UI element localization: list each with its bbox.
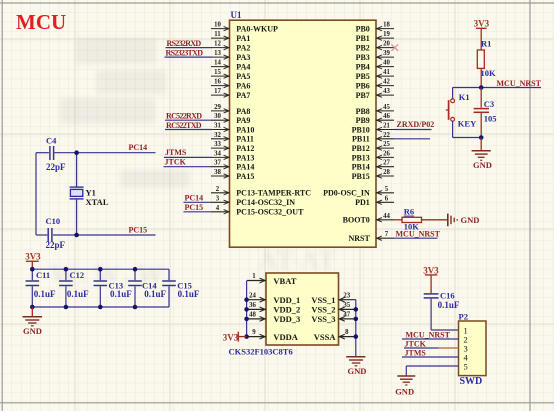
switch K1 bbox=[446, 99, 455, 121]
wire net MCU_NRST (P2 pin 2) bbox=[402, 338, 459, 340]
svg-text:GND: GND bbox=[473, 160, 492, 170]
wire net RC522TXD bbox=[165, 129, 212, 131]
svg-text:PA3: PA3 bbox=[236, 53, 250, 62]
svg-text:R1: R1 bbox=[481, 39, 491, 49]
svg-text:PA10: PA10 bbox=[236, 125, 254, 134]
svg-text:8: 8 bbox=[345, 329, 349, 336]
capacitor C15 bbox=[162, 269, 176, 307]
svg-text:19: 19 bbox=[383, 31, 390, 38]
svg-text:JTCK: JTCK bbox=[405, 339, 427, 348]
svg-text:38: 38 bbox=[214, 169, 221, 176]
capacitor C11 bbox=[26, 269, 40, 307]
svg-text:23: 23 bbox=[343, 292, 350, 299]
svg-text:PD1: PD1 bbox=[355, 198, 370, 207]
svg-text:PC14: PC14 bbox=[129, 143, 148, 152]
U1 pin 48 (VDD_3) bbox=[247, 312, 300, 325]
U1 pin 8 (VSSA) bbox=[314, 329, 356, 342]
junctions VSS bus bbox=[354, 307, 359, 339]
svg-text:26: 26 bbox=[383, 150, 390, 157]
junction crystal top bbox=[74, 150, 79, 155]
wire C16 to P2 pin 1 bbox=[431, 299, 458, 330]
svg-text:10K: 10K bbox=[404, 222, 420, 232]
svg-text:3: 3 bbox=[216, 195, 220, 202]
P2 pin 1 bbox=[464, 325, 468, 335]
svg-text:RC522RXD: RC522RXD bbox=[166, 112, 202, 121]
svg-text:GND: GND bbox=[348, 366, 367, 376]
junction crystal bottom bbox=[74, 233, 79, 238]
svg-text:C16: C16 bbox=[440, 290, 455, 300]
U1 pin 34 (PA13) bbox=[211, 150, 254, 162]
wire net JTCK (P2 pin 3) bbox=[404, 347, 459, 349]
svg-text:PA9: PA9 bbox=[236, 116, 250, 125]
svg-text:27: 27 bbox=[383, 160, 390, 167]
ground GND (key circuit) bbox=[472, 151, 491, 161]
op-amp U1 body (MCU IC, power part) bbox=[266, 273, 339, 345]
capacitor C10 bbox=[48, 228, 52, 242]
svg-text:22pF: 22pF bbox=[46, 162, 66, 172]
wire crystal branch lower bbox=[76, 199, 78, 235]
svg-text:0.1uF: 0.1uF bbox=[34, 289, 56, 299]
svg-text:PB9: PB9 bbox=[356, 116, 370, 125]
svg-text:K1: K1 bbox=[459, 92, 470, 102]
P2 pin 4 bbox=[464, 352, 469, 362]
U1 pin 1 (VBAT) bbox=[247, 273, 297, 286]
svg-text:C12: C12 bbox=[70, 270, 85, 280]
svg-text:JTMS: JTMS bbox=[165, 148, 187, 157]
svg-text:34: 34 bbox=[214, 150, 221, 157]
svg-text:29: 29 bbox=[214, 104, 221, 111]
wire R6 to GND bar bbox=[422, 219, 448, 221]
svg-text:PB10: PB10 bbox=[352, 125, 370, 134]
svg-text:PB8: PB8 bbox=[356, 107, 370, 116]
svg-text:PC14-OSC32_IN: PC14-OSC32_IN bbox=[236, 198, 295, 207]
svg-text:45: 45 bbox=[383, 104, 390, 111]
svg-text:24: 24 bbox=[249, 292, 256, 299]
svg-text:48: 48 bbox=[249, 312, 256, 319]
op-amp U1 body (MCU IC, part A) bbox=[230, 20, 377, 247]
junctions cap bank bottom bus bbox=[30, 305, 137, 310]
svg-text:PB11: PB11 bbox=[352, 135, 370, 144]
U1 pin 29 (PA8) bbox=[211, 104, 250, 116]
svg-text:20: 20 bbox=[383, 41, 390, 48]
svg-text:12: 12 bbox=[214, 41, 221, 48]
wire net JTMS bbox=[164, 156, 212, 158]
resistor R1 bbox=[477, 50, 484, 68]
resistor R6 bbox=[402, 217, 422, 222]
svg-text:PB6: PB6 bbox=[356, 82, 370, 91]
capacitor C4 bbox=[50, 146, 54, 160]
wire net MCU_NRST (horizontal) bbox=[453, 87, 541, 89]
svg-text:RS2323TXD: RS2323TXD bbox=[166, 48, 204, 57]
svg-text:BOOT0: BOOT0 bbox=[343, 216, 370, 225]
svg-text:0.1uF: 0.1uF bbox=[144, 289, 166, 299]
svg-text:43: 43 bbox=[383, 88, 390, 95]
svg-text:PB12: PB12 bbox=[352, 144, 370, 153]
svg-text:VDD_3: VDD_3 bbox=[273, 314, 300, 324]
wire net PC15 (crystal bottom) bbox=[36, 234, 156, 236]
svg-text:MCU_NRST: MCU_NRST bbox=[406, 330, 451, 339]
wire VDD left vertical bus bbox=[246, 281, 248, 337]
svg-text:44: 44 bbox=[383, 213, 390, 220]
wire node to capacitor C3 bbox=[480, 88, 482, 108]
svg-text:PA2: PA2 bbox=[236, 44, 250, 53]
U1 pin 42 (PB6) bbox=[356, 79, 394, 91]
svg-text:GND: GND bbox=[461, 215, 480, 225]
svg-text:XTAL: XTAL bbox=[86, 197, 109, 207]
wire net RS2323TXD bbox=[165, 56, 212, 58]
svg-text:AT-AT: AT-AT bbox=[258, 245, 336, 275]
svg-text:PB7: PB7 bbox=[356, 91, 370, 100]
wire at pin 22 (PB11) bbox=[394, 138, 430, 140]
wire net PC14 (crystal top) bbox=[36, 152, 156, 154]
svg-text:40: 40 bbox=[383, 60, 390, 67]
svg-text:RC522TXD: RC522TXD bbox=[166, 121, 202, 130]
svg-text:U1: U1 bbox=[231, 10, 242, 20]
svg-text:25: 25 bbox=[383, 141, 390, 148]
wire net PC14 (to pin 3) bbox=[184, 201, 212, 203]
U1 pin 31 (PA10) bbox=[211, 123, 254, 135]
svg-text:SWD: SWD bbox=[460, 376, 483, 387]
wire VSS right vertical bus bbox=[355, 300, 357, 357]
U1 pin 12 (PA2) bbox=[211, 41, 250, 53]
svg-text:VDD_1: VDD_1 bbox=[273, 295, 300, 305]
U1 pin 14 (PA4) bbox=[211, 60, 250, 72]
svg-text:PB13: PB13 bbox=[352, 153, 370, 162]
U1 pin 13 (PA3) bbox=[211, 50, 250, 62]
svg-text:ZRXD/P02: ZRXD/P02 bbox=[397, 120, 435, 129]
svg-text:0.1uF: 0.1uF bbox=[67, 289, 89, 299]
svg-text:PB1: PB1 bbox=[356, 34, 370, 43]
svg-text:4: 4 bbox=[216, 205, 220, 212]
svg-text:VSS_3: VSS_3 bbox=[311, 314, 335, 324]
svg-text:PB2: PB2 bbox=[356, 44, 370, 53]
svg-text:VDDA: VDDA bbox=[273, 332, 298, 342]
capacitor C3 bbox=[474, 109, 489, 113]
U1 pin 35 (VSS_2) bbox=[311, 302, 355, 315]
svg-text:PC15: PC15 bbox=[185, 203, 204, 212]
ground GND (boot0, bar style) bbox=[448, 214, 457, 227]
svg-text:NRST: NRST bbox=[348, 234, 370, 243]
U1 pin 39 (PB3) bbox=[356, 50, 394, 62]
svg-text:5: 5 bbox=[464, 361, 468, 371]
svg-text:PA5: PA5 bbox=[236, 72, 250, 81]
svg-text:22pF: 22pF bbox=[46, 240, 66, 250]
svg-text:PB0: PB0 bbox=[356, 25, 370, 34]
svg-text:31: 31 bbox=[214, 123, 221, 130]
svg-text:PB14: PB14 bbox=[352, 163, 370, 172]
U1 pin 3 (PC14-OSC32_IN) bbox=[211, 195, 295, 207]
wire cap bank bottom bus bbox=[32, 306, 169, 308]
svg-text:33: 33 bbox=[214, 141, 221, 148]
svg-text:13: 13 bbox=[214, 50, 221, 57]
P2 pin 3 bbox=[464, 343, 468, 353]
U1 pin 15 (PA5) bbox=[211, 69, 250, 81]
wire switch K1 to bottom node bbox=[453, 121, 482, 137]
P2 pin 2 bbox=[464, 334, 468, 344]
svg-text:CKS32F103C8T6: CKS32F103C8T6 bbox=[229, 347, 293, 357]
svg-text:MCU_NRST: MCU_NRST bbox=[497, 79, 542, 88]
svg-text:PD0-OSC_IN: PD0-OSC_IN bbox=[323, 189, 370, 198]
svg-text:10K: 10K bbox=[481, 68, 497, 78]
svg-text:PA1: PA1 bbox=[236, 34, 250, 43]
U1 pin 21 (PB10) bbox=[352, 123, 394, 135]
U1 pin 36 (VDD_2) bbox=[247, 302, 300, 315]
svg-text:30: 30 bbox=[214, 113, 221, 120]
svg-text:16: 16 bbox=[214, 79, 221, 86]
svg-text:PA15: PA15 bbox=[236, 172, 254, 181]
wire net RC522RXD bbox=[165, 119, 212, 121]
svg-text:105: 105 bbox=[484, 114, 497, 124]
svg-text:JTCK: JTCK bbox=[165, 158, 187, 167]
svg-text:11: 11 bbox=[214, 31, 221, 38]
U1 pin 43 (PB7) bbox=[356, 88, 394, 100]
junction bottom node (key/C3) bbox=[479, 135, 484, 140]
U1 pin 26 (PB13) bbox=[352, 150, 394, 162]
svg-text:GND: GND bbox=[395, 387, 414, 397]
U1 pin 7 (NRST) bbox=[348, 231, 394, 243]
P2 pin 5 bbox=[464, 361, 468, 371]
wire net RS232RXD bbox=[166, 47, 212, 49]
svg-text:41: 41 bbox=[383, 69, 390, 76]
svg-text:3V3: 3V3 bbox=[474, 18, 490, 28]
svg-text:39: 39 bbox=[383, 50, 390, 57]
svg-text:VSS_1: VSS_1 bbox=[311, 295, 335, 305]
svg-text:C4: C4 bbox=[46, 135, 57, 145]
svg-text:28: 28 bbox=[383, 169, 390, 176]
svg-text:PA4: PA4 bbox=[236, 63, 250, 72]
U1 pin 44 (BOOT0) bbox=[343, 213, 394, 225]
svg-text:PA12: PA12 bbox=[236, 144, 254, 153]
svg-text:37: 37 bbox=[214, 160, 221, 167]
ground GND (cap bank) bbox=[23, 317, 43, 326]
svg-text:22: 22 bbox=[383, 132, 390, 139]
svg-text:21: 21 bbox=[383, 123, 390, 130]
connector P2 body bbox=[459, 321, 487, 376]
svg-text:MCU: MCU bbox=[16, 10, 66, 34]
svg-text:PA11: PA11 bbox=[236, 135, 254, 144]
svg-text:C3: C3 bbox=[484, 99, 494, 109]
svg-text:VSSA: VSSA bbox=[314, 332, 337, 342]
junctions VDD bus bbox=[244, 297, 249, 339]
svg-text:15: 15 bbox=[214, 69, 221, 76]
svg-text:PB15: PB15 bbox=[352, 172, 370, 181]
capacitor C13 bbox=[94, 269, 108, 307]
wire bottom node to ground bbox=[480, 138, 482, 151]
wire cap bank to ground bbox=[31, 307, 33, 316]
svg-text:VSS_2: VSS_2 bbox=[311, 305, 335, 315]
power port 3V3 (C16) bbox=[423, 266, 439, 294]
U1 pin 22 (PB11) bbox=[352, 132, 394, 144]
wire C3 to bottom node bbox=[480, 113, 482, 138]
U1 pin 37 (PA14) bbox=[211, 160, 254, 172]
capacitor C16 bbox=[424, 294, 439, 298]
junctions cap bank top bus bbox=[30, 267, 137, 272]
svg-text:RS232RXD: RS232RXD bbox=[167, 39, 202, 48]
svg-text:0.1uF: 0.1uF bbox=[178, 289, 200, 299]
svg-text:1: 1 bbox=[252, 273, 256, 280]
wire net JTMS (P2 pin 4) bbox=[402, 356, 459, 358]
wire crystal branch upper bbox=[76, 153, 78, 187]
svg-text:C11: C11 bbox=[36, 270, 50, 280]
svg-text:PA0-WKUP: PA0-WKUP bbox=[236, 25, 278, 34]
svg-text:0.1uF: 0.1uF bbox=[438, 300, 460, 310]
U1 pin 24 (VDD_1) bbox=[247, 292, 300, 305]
U1 pin 33 (PA12) bbox=[211, 141, 254, 153]
U1 pin 25 (PB12) bbox=[352, 141, 394, 153]
wire BOOT0 pin to R6 bbox=[394, 219, 402, 221]
svg-text:R6: R6 bbox=[404, 207, 414, 217]
svg-text:PA8: PA8 bbox=[236, 107, 250, 116]
junction node MCU_NRST bbox=[479, 85, 484, 90]
U1 pin 16 (PA6) bbox=[211, 79, 250, 91]
power port 3V3 (VDDA) bbox=[223, 332, 247, 343]
svg-text:P2: P2 bbox=[459, 311, 468, 321]
U1 pin 41 (PB5) bbox=[356, 69, 394, 81]
svg-text:GND: GND bbox=[23, 326, 42, 336]
ground GND (VSS) bbox=[346, 357, 365, 366]
crystal Y1 bbox=[70, 187, 84, 199]
U1 pin 19 (PB1) bbox=[356, 31, 394, 43]
wire R1 to node MCU_NRST bbox=[480, 68, 482, 87]
svg-text:PB5: PB5 bbox=[356, 72, 370, 81]
wire net MCU_NRST (to pin 7 NRST) bbox=[394, 237, 438, 239]
no-ERC marker at pin 20 bbox=[391, 44, 398, 51]
U1 pin 27 (PB14) bbox=[352, 160, 394, 172]
svg-text:3V3: 3V3 bbox=[423, 266, 439, 276]
U1 pin 18 (PB0) bbox=[356, 22, 394, 34]
wire net PC15 (to pin 4) bbox=[184, 211, 212, 213]
svg-text:PA7: PA7 bbox=[236, 91, 250, 100]
U1 pin 38 (PA15) bbox=[211, 169, 254, 181]
U1 pin 5 (PD0-OSC_IN) bbox=[323, 186, 394, 198]
power port 3V3 (top right) bbox=[474, 18, 490, 50]
svg-text:3V3: 3V3 bbox=[223, 332, 239, 342]
U1 pin 40 (PB4) bbox=[356, 60, 394, 72]
ground GND (P2) bbox=[397, 376, 415, 385]
svg-text:PC15: PC15 bbox=[129, 225, 148, 234]
power port 3V3 (cap bank) bbox=[25, 252, 41, 270]
svg-text:46: 46 bbox=[383, 113, 390, 120]
svg-text:PC15-OSC32_OUT: PC15-OSC32_OUT bbox=[236, 208, 304, 217]
svg-text:PB4: PB4 bbox=[356, 63, 370, 72]
svg-text:JTMS: JTMS bbox=[405, 348, 427, 357]
wire net ZRXD/P02 (pin 21) bbox=[394, 129, 432, 131]
U1 pin 47 (VSS_3) bbox=[311, 312, 355, 325]
U1 pin 46 (PB9) bbox=[356, 113, 394, 125]
U1 pin 9 (VDDA) bbox=[247, 329, 299, 342]
wire P2 pin 5 to ground bbox=[406, 366, 458, 376]
svg-text:6: 6 bbox=[385, 195, 389, 202]
svg-text:7: 7 bbox=[385, 231, 389, 238]
wire net JTCK bbox=[164, 166, 212, 168]
U1 pin 10 (PA0-WKUP) bbox=[211, 22, 278, 34]
svg-text:36: 36 bbox=[249, 302, 256, 309]
svg-text:35: 35 bbox=[343, 302, 350, 309]
svg-text:2: 2 bbox=[216, 186, 220, 193]
svg-text:PC14: PC14 bbox=[185, 193, 204, 202]
capacitor C12 bbox=[59, 269, 73, 307]
wire to switch K1 bbox=[452, 88, 454, 100]
svg-text:9: 9 bbox=[252, 329, 256, 336]
U1 pin 30 (PA9) bbox=[211, 113, 250, 125]
U1 pin 17 (PA7) bbox=[211, 88, 250, 100]
U1 pin 23 (VSS_1) bbox=[311, 292, 355, 305]
svg-text:PA13: PA13 bbox=[236, 153, 254, 162]
svg-text:10: 10 bbox=[214, 22, 221, 29]
svg-text:KEY: KEY bbox=[458, 119, 476, 129]
svg-text:47: 47 bbox=[343, 312, 350, 319]
U1 pin 28 (PB15) bbox=[352, 169, 394, 181]
U1 pin 4 (PC15-OSC32_OUT) bbox=[211, 205, 304, 217]
svg-text:14: 14 bbox=[214, 60, 221, 67]
svg-text:32: 32 bbox=[214, 132, 221, 139]
svg-text:VBAT: VBAT bbox=[273, 276, 296, 286]
svg-text:5: 5 bbox=[385, 186, 389, 193]
svg-text:18: 18 bbox=[383, 22, 390, 29]
svg-text:PB3: PB3 bbox=[356, 53, 370, 62]
svg-text:PC13-TAMPER-RTC: PC13-TAMPER-RTC bbox=[236, 189, 311, 198]
svg-text:PA14: PA14 bbox=[236, 163, 254, 172]
U1 pin 45 (PB8) bbox=[356, 104, 394, 116]
U1 pin 32 (PA11) bbox=[211, 132, 254, 144]
U1 pin 20 (PB2) bbox=[356, 41, 394, 53]
svg-text:17: 17 bbox=[214, 88, 221, 95]
U1 pin 2 (PC13-TAMPER-RTC) bbox=[211, 186, 311, 198]
svg-text:3V3: 3V3 bbox=[25, 252, 41, 262]
U1 pin 11 (PA1) bbox=[211, 31, 250, 43]
svg-text:VDD_2: VDD_2 bbox=[273, 305, 300, 315]
svg-text:42: 42 bbox=[383, 79, 390, 86]
svg-text:C10: C10 bbox=[46, 216, 61, 226]
capacitor C14 bbox=[128, 269, 142, 307]
wire cap bank top bus bbox=[32, 268, 169, 270]
wire left leg of crystal loop bbox=[35, 153, 37, 235]
U1 pin 6 (PD1) bbox=[355, 195, 394, 207]
svg-text:0.1uF: 0.1uF bbox=[110, 289, 132, 299]
svg-text:PA6: PA6 bbox=[236, 82, 250, 91]
